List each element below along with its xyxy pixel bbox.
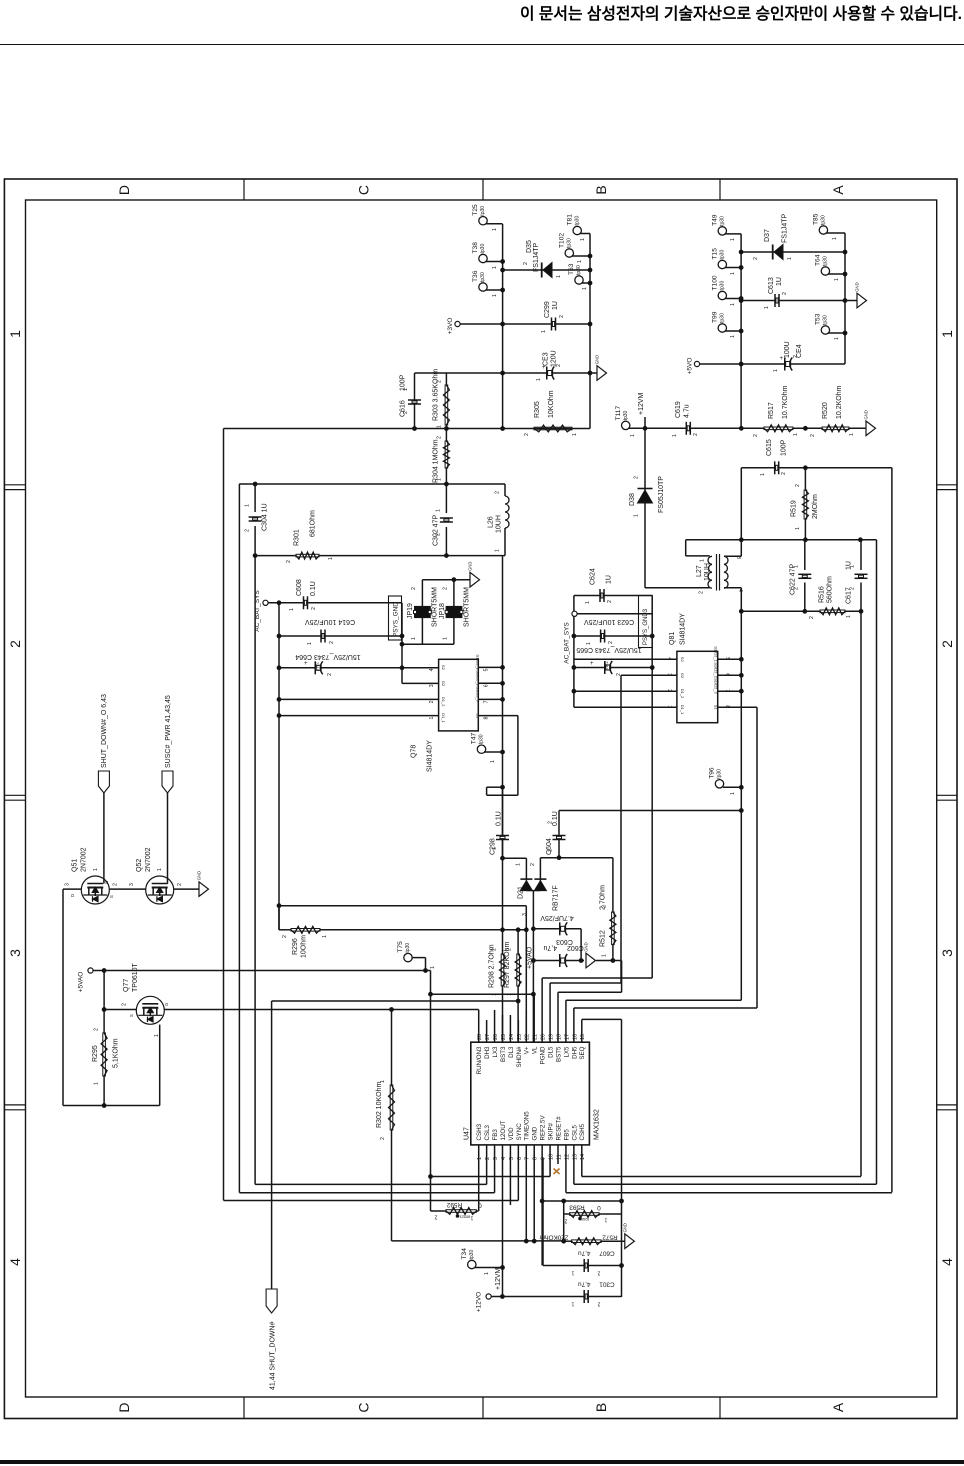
capacitor C607 4.7u	[542, 1158, 544, 1266]
svg-text:REF2.5V: REF2.5V	[540, 1115, 547, 1141]
wire +5VAO drop	[103, 971, 105, 1033]
test point T99	[718, 324, 726, 332]
svg-text:0.1U: 0.1U	[496, 811, 503, 826]
wire staircase line to pin3	[239, 1192, 494, 1194]
wire bus node B1	[502, 224, 504, 429]
wire D21 pin2 line	[540, 857, 613, 859]
svg-text:2: 2	[94, 1028, 100, 1031]
svg-text:1: 1	[634, 514, 640, 517]
capacitor C617 1U	[860, 540, 862, 570]
svg-text:+3VO: +3VO	[447, 318, 454, 335]
svg-text:1: 1	[582, 287, 588, 290]
wire +5VAO node	[532, 898, 534, 1042]
svg-text:T96: T96	[709, 767, 716, 779]
svg-text:R592: R592	[446, 1201, 462, 1208]
svg-text:100U: 100U	[784, 341, 791, 358]
svg-text:4.7u: 4.7u	[684, 404, 691, 418]
resistor R304 1MOhm	[445, 441, 448, 468]
svg-text:2: 2	[113, 883, 119, 886]
svg-text:VL: VL	[532, 1046, 539, 1054]
capacitor C614 10UF/25V	[279, 635, 402, 637]
ground symbol	[849, 427, 866, 429]
svg-text:2: 2	[429, 700, 435, 703]
svg-text:1: 1	[939, 330, 955, 338]
diode D37 FS1J4TP	[741, 251, 845, 253]
svg-text:SKIP#: SKIP#	[547, 1122, 554, 1140]
svg-text:4: 4	[737, 589, 743, 592]
ground symbol	[845, 300, 857, 302]
svg-text:1: 1	[849, 433, 855, 436]
svg-text:R516: R516	[819, 586, 826, 603]
wire rail1 right	[629, 427, 865, 429]
svg-text:DH3: DH3	[484, 1046, 491, 1059]
svg-text:G: G	[164, 1003, 169, 1006]
svg-text:1: 1	[328, 557, 334, 560]
wire L27 left bottom	[645, 587, 710, 589]
resistor R519 2MOhm	[804, 468, 806, 490]
svg-text:tp30: tp30	[480, 206, 486, 216]
wire Q77 source	[104, 1009, 136, 1011]
svg-text:SI4814DY: SI4814DY	[680, 613, 687, 645]
svg-text:T53: T53	[815, 313, 822, 325]
polarized capacitor C602 4.7u	[533, 960, 584, 962]
wire Q77 drain	[159, 1025, 161, 1106]
svg-text:2: 2	[177, 883, 183, 886]
svg-text:10UH: 10UH	[496, 515, 503, 533]
wire R512 bottom	[612, 945, 614, 961]
wire PSYS vertical 2	[577, 613, 652, 615]
svg-text:+5VAO: +5VAO	[527, 946, 534, 969]
svg-text:G: G	[104, 881, 109, 884]
svg-text:S1/D2_1: S1/D2_1	[714, 646, 719, 662]
wire rail GND-CE3	[415, 372, 591, 374]
svg-text:tp30: tp30	[480, 272, 486, 282]
resistor R593 0ohm	[563, 1201, 565, 1214]
test point T100	[718, 291, 726, 299]
svg-text:B: B	[593, 1403, 609, 1412]
svg-text:1: 1	[430, 966, 436, 969]
wires U47 top pins	[478, 1010, 480, 1029]
svg-text:2: 2	[753, 434, 759, 437]
capacitor C622 47P	[804, 540, 806, 570]
ground symbol R572	[625, 1234, 635, 1249]
svg-text:80523: 80523	[460, 1215, 471, 1219]
svg-text:CSL5: CSL5	[571, 1124, 578, 1140]
svg-text:C614 10UF/25V: C614 10UF/25V	[305, 618, 356, 625]
svg-text:2: 2	[403, 411, 409, 414]
wire Q51-Q52 link	[109, 888, 146, 890]
jumper JP19 SHORT5MM	[422, 579, 470, 581]
svg-text:DL3: DL3	[508, 1046, 515, 1058]
svg-text:0: 0	[478, 1202, 482, 1209]
svg-text:GND: GND	[622, 1223, 627, 1232]
svg-text:PSYS_GND: PSYS_GND	[393, 602, 400, 637]
svg-text:D: D	[70, 894, 75, 897]
test point T102	[565, 249, 573, 257]
wires Q78 left pins	[402, 667, 439, 669]
svg-text:D: D	[116, 185, 132, 195]
wire L27 right pins	[724, 555, 741, 557]
svg-text:VDD: VDD	[508, 1127, 515, 1141]
port AC_BAT_SYS 2	[572, 611, 577, 616]
wire bus node A1	[740, 234, 742, 428]
svg-text:1: 1	[760, 473, 766, 476]
svg-text:GND: GND	[595, 355, 600, 364]
boxed net label PSYS_GND3	[639, 596, 653, 648]
svg-text:681Ohm: 681Ohm	[310, 510, 317, 537]
wire VL line	[431, 993, 534, 995]
svg-text:2: 2	[548, 821, 554, 824]
svg-text:tp30: tp30	[821, 215, 827, 225]
wire DH5 gate rail	[756, 707, 758, 1008]
svg-text:1: 1	[602, 954, 608, 957]
svg-text:1: 1	[541, 330, 547, 333]
svg-text:2: 2	[602, 905, 608, 908]
svg-text:2: 2	[597, 1301, 600, 1307]
svg-text:2: 2	[809, 616, 815, 619]
svg-text:1: 1	[289, 608, 295, 611]
svg-text:1: 1	[436, 509, 442, 512]
svg-text:T38: T38	[472, 242, 479, 254]
svg-text:1: 1	[730, 272, 736, 275]
svg-text:+: +	[780, 356, 784, 362]
wire staircase line to pin6	[224, 1200, 519, 1202]
svg-text:2: 2	[437, 380, 443, 383]
svg-text:1: 1	[492, 847, 498, 850]
resistor R296 10Ohm	[291, 929, 320, 932]
net label +12VM	[644, 417, 646, 428]
svg-text:1: 1	[571, 1270, 574, 1276]
svg-text:FS1J4TP: FS1J4TP	[533, 242, 540, 272]
wire PSYS vertical	[401, 603, 403, 684]
resistor R592 0ohm	[446, 1210, 476, 1213]
svg-text:JP18: JP18	[439, 603, 446, 619]
svg-text:PSYS_GND3: PSYS_GND3	[643, 608, 649, 645]
svg-text:SUSC#_PWR 41,43,45: SUSC#_PWR 41,43,45	[165, 695, 172, 768]
svg-text:1: 1	[492, 294, 498, 297]
wire L27 top rail	[686, 539, 877, 541]
test point T85	[819, 226, 827, 234]
transistor Q51 2N7002	[81, 876, 109, 904]
svg-text:1: 1	[793, 433, 799, 436]
svg-text:1: 1	[795, 527, 801, 530]
svg-text:560Ohm: 560Ohm	[827, 576, 834, 603]
test point T34	[468, 1260, 476, 1268]
svg-text:2: 2	[793, 355, 799, 358]
capacitor C608 0.1U	[304, 600, 306, 605]
wire mid-A	[741, 610, 861, 612]
svg-text:2: 2	[327, 673, 333, 676]
svg-text:T49: T49	[712, 214, 719, 226]
svg-text:1: 1	[548, 849, 554, 852]
svg-text:R517: R517	[768, 402, 775, 419]
svg-text:2: 2	[753, 257, 759, 260]
svg-text:C: C	[356, 1402, 372, 1412]
svg-text:2: 2	[634, 476, 640, 479]
svg-text:3: 3	[7, 949, 23, 957]
svg-text:4: 4	[939, 1258, 955, 1266]
wire staircase line to pin2	[255, 1183, 487, 1185]
svg-text:2: 2	[530, 863, 536, 866]
test point T36	[479, 283, 487, 291]
svg-text:2N7002: 2N7002	[81, 847, 88, 872]
test point T117	[622, 421, 630, 429]
svg-text:1: 1	[832, 237, 838, 240]
wire R296 rail	[278, 906, 280, 930]
svg-text:100P: 100P	[781, 439, 788, 456]
jumper JP18 SHORT5MM	[453, 580, 455, 607]
svg-text:2: 2	[436, 533, 442, 536]
port AC_BAT_SYS	[263, 600, 268, 605]
svg-text:2: 2	[443, 587, 449, 590]
svg-text:GND: GND	[864, 410, 869, 419]
polarized capacitor CE4 100U	[786, 362, 791, 367]
svg-text:+5VAO: +5VAO	[78, 972, 85, 993]
svg-text:+: +	[590, 661, 594, 667]
svg-text:C: C	[356, 185, 372, 195]
svg-text:1: 1	[556, 275, 562, 278]
svg-text:T34: T34	[461, 1248, 468, 1260]
svg-text:2: 2	[437, 436, 443, 439]
svg-text:1: 1	[437, 425, 443, 428]
svg-text:R301: R301	[294, 529, 301, 546]
ground symbol	[590, 372, 597, 374]
svg-text:CSH5: CSH5	[579, 1123, 586, 1140]
svg-text:2: 2	[7, 640, 23, 648]
svg-text:FB5: FB5	[563, 1129, 570, 1141]
svg-text:T63: T63	[568, 263, 575, 275]
svg-text:C299: C299	[544, 301, 551, 318]
test point T96	[715, 780, 723, 788]
wire SEQ line	[582, 1018, 622, 1020]
transistor Q77 TP0610T	[136, 996, 164, 1024]
svg-text:FB3: FB3	[492, 1129, 499, 1141]
svg-text:GND: GND	[584, 942, 589, 951]
wire +5VAO rail	[93, 970, 430, 972]
svg-text:2: 2	[286, 560, 292, 563]
wires Q81 right pins	[718, 658, 742, 660]
svg-text:Q78: Q78	[411, 745, 418, 758]
svg-text:1: 1	[93, 868, 99, 871]
wire feedback rail FB-B	[876, 540, 878, 1184]
svg-text:SI4814DY: SI4814DY	[427, 740, 434, 772]
svg-text:C298: C298	[490, 838, 497, 855]
capacitor C301 4.7u	[491, 1296, 621, 1298]
svg-text:2: 2	[282, 935, 288, 938]
resistor R295 5.1KOhm	[103, 1033, 106, 1076]
svg-text:LX3: LX3	[492, 1046, 499, 1058]
svg-text:D1_2: D1_2	[680, 689, 685, 699]
resistor R303 3.65KOhm	[445, 385, 448, 425]
svg-text:D21: D21	[518, 886, 525, 899]
svg-text:SHORT5MM: SHORT5MM	[464, 587, 471, 627]
svg-text:AC_BAT_SYS: AC_BAT_SYS	[564, 622, 571, 664]
svg-text:1: 1	[322, 935, 328, 938]
svg-text:4,7u: 4,7u	[578, 1281, 591, 1288]
wire AC bus 2	[573, 596, 575, 612]
svg-text:tp30: tp30	[720, 281, 726, 291]
svg-text:D38: D38	[629, 493, 636, 506]
svg-text:2: 2	[794, 587, 800, 590]
svg-text:1U: 1U	[552, 301, 559, 310]
svg-text:S1/D2_3: S1/D2_3	[714, 678, 719, 694]
svg-text:1: 1	[484, 1272, 490, 1275]
wire Q77 gate line to U47 pin28	[164, 1009, 478, 1011]
test point T53	[821, 326, 829, 334]
svg-text:D1_2: D1_2	[441, 697, 446, 707]
wire long bus L1	[223, 429, 225, 1201]
svg-text:FS05J10TP: FS05J10TP	[658, 476, 665, 513]
svg-text:2: 2	[699, 591, 705, 594]
svg-text:1: 1	[490, 760, 496, 763]
svg-text:S: S	[129, 1014, 134, 1017]
wire DH5 line	[574, 1007, 757, 1009]
capacitor C304 1U	[254, 484, 256, 512]
power port +5VAO	[88, 968, 93, 973]
wire pin14 to FB-A rail	[582, 1176, 861, 1178]
diode D35 FS1J4TP	[503, 269, 590, 271]
svg-text:1: 1	[380, 1080, 386, 1083]
svg-text:R304 1MOhm: R304 1MOhm	[433, 439, 440, 483]
capacitor C299 1U	[503, 323, 590, 325]
svg-text:1: 1	[470, 1215, 473, 1221]
svg-text:2: 2	[311, 607, 317, 610]
svg-text:2N7002: 2N7002	[145, 847, 152, 872]
svg-text:3: 3	[65, 883, 71, 886]
wire DL5 line	[550, 982, 621, 984]
svg-text:15U/25V_7343 C665: 15U/25V_7343 C665	[576, 646, 641, 653]
marker cross	[554, 1169, 560, 1175]
resistor R517 10.7KOhm	[764, 427, 793, 430]
svg-text:LX5: LX5	[563, 1046, 570, 1058]
svg-text:R295: R295	[92, 1045, 99, 1062]
svg-text:G2: G2	[441, 681, 446, 687]
svg-text:2: 2	[564, 1218, 567, 1224]
capacitor C624 1U	[574, 595, 652, 597]
svg-text:10.2KOhm: 10.2KOhm	[836, 385, 843, 419]
svg-text:SEQ: SEQ	[579, 1046, 586, 1059]
svg-text:2: 2	[559, 315, 565, 318]
svg-text:+5VO: +5VO	[687, 358, 694, 375]
svg-text:2: 2	[434, 1214, 437, 1220]
svg-text:T85: T85	[813, 213, 820, 225]
svg-text:1: 1	[245, 504, 251, 507]
svg-text:1: 1	[730, 335, 736, 338]
svg-text:C603: C603	[556, 938, 573, 945]
svg-text:41,44 SHUT_DOWN#: 41,44 SHUT_DOWN#	[270, 1321, 277, 1390]
svg-text:T36: T36	[472, 270, 479, 282]
ground symbol +5VAO caps	[586, 953, 596, 968]
svg-text:1: 1	[730, 792, 736, 795]
power port +5VO	[694, 361, 699, 366]
wire bus node B2	[589, 234, 591, 429]
svg-text:3: 3	[429, 684, 435, 687]
svg-text:U47: U47	[464, 1127, 471, 1140]
wire AC bus	[268, 602, 402, 604]
svg-text:B: B	[593, 185, 609, 194]
svg-text:RUN/ON3: RUN/ON3	[476, 1046, 483, 1074]
wire +5VO line	[700, 363, 845, 365]
svg-text:A: A	[830, 185, 846, 195]
wire R295 bottom rail	[103, 1076, 105, 1106]
test point T63	[575, 276, 583, 284]
svg-text:1: 1	[850, 565, 856, 568]
svg-text:1: 1	[834, 337, 840, 340]
svg-text:tp30: tp30	[479, 734, 485, 744]
svg-text:2: 2	[782, 292, 788, 295]
svg-text:GND: GND	[855, 282, 860, 291]
resistor R512 2.7Ohm	[612, 858, 614, 912]
diode D38 FS05J10TP	[644, 428, 646, 490]
svg-text:2: 2	[523, 262, 529, 265]
svg-text:BST3: BST3	[500, 1046, 507, 1062]
resistor R305 10KOhm	[534, 427, 572, 430]
transistor Q78 SI4814DY	[439, 659, 479, 731]
svg-text:S1/D2_1: S1/D2_1	[476, 654, 481, 670]
wire BST5 link	[596, 960, 622, 962]
wire bus node A2	[844, 233, 846, 364]
svg-text:S2: S2	[680, 657, 685, 663]
svg-text:Q51: Q51	[72, 859, 79, 872]
wire rail2	[239, 483, 505, 485]
svg-text:+12VM: +12VM	[495, 1267, 502, 1290]
svg-text:1: 1	[492, 266, 498, 269]
polarized capacitor C665 15U/25V_7343	[574, 667, 652, 669]
test point T75	[404, 953, 412, 961]
svg-text:S1/D2_3: S1/D2_3	[476, 686, 481, 702]
svg-text:tp30: tp30	[480, 244, 486, 254]
capacitor C619 4.7u	[687, 426, 689, 431]
wire SHUT_DOWN vertical	[272, 1000, 518, 1002]
svg-text:220KOhm: 220KOhm	[540, 1234, 569, 1241]
svg-text:1: 1	[437, 478, 443, 481]
svg-text:RESET#: RESET#	[555, 1116, 562, 1141]
svg-text:S1/D2_2: S1/D2_2	[714, 662, 719, 678]
svg-text:1: 1	[572, 433, 578, 436]
svg-text:R302 10KOhm: R302 10KOhm	[376, 1082, 383, 1128]
wire V+ line	[279, 905, 526, 907]
test point T15	[718, 260, 726, 268]
resistor R298 2.7Ohm	[501, 954, 504, 986]
svg-text:SHDN#: SHDN#	[516, 1046, 523, 1068]
power port +12VO	[486, 1294, 491, 1299]
svg-text:1: 1	[403, 388, 409, 391]
svg-text:1: 1	[834, 278, 840, 281]
svg-text:DH5: DH5	[571, 1046, 578, 1059]
capacitor C615 100P	[741, 467, 892, 469]
wire R297 bottom to SHDN pin	[517, 986, 519, 1042]
resistor R297 82KOhm	[517, 930, 519, 954]
svg-text:6: 6	[484, 684, 490, 687]
test point T49	[718, 227, 726, 235]
svg-text:tp30: tp30	[720, 313, 726, 323]
svg-text:12OUT: 12OUT	[500, 1120, 507, 1140]
wire feedback rail FB-A	[860, 611, 862, 1176]
transistor Q52 2N7002	[146, 876, 174, 904]
test point T25	[479, 217, 487, 225]
wire pin12 line	[566, 1192, 892, 1194]
resistor R516 560Ohm	[820, 610, 845, 613]
svg-text:1: 1	[730, 238, 736, 241]
svg-text:T99: T99	[712, 311, 719, 323]
svg-text:1: 1	[580, 238, 586, 241]
svg-text:2: 2	[329, 641, 335, 644]
svg-text:2MOhm: 2MOhm	[812, 494, 819, 519]
svg-text:1: 1	[630, 434, 636, 437]
svg-text:G2: G2	[680, 673, 685, 679]
wire long bus L2	[238, 484, 240, 1193]
wire rail3	[255, 555, 505, 557]
